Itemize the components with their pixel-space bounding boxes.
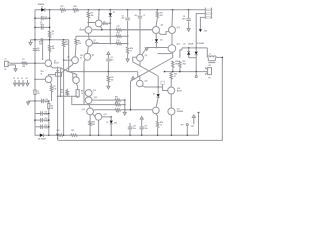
svg-text:Q9: Q9	[161, 24, 163, 26]
svg-text:1k: 1k	[130, 50, 132, 52]
svg-text:R19: R19	[182, 61, 185, 63]
svg-text:100n: 100n	[144, 128, 148, 130]
wire bias head	[147, 47, 168, 49]
svg-text:C12: C12	[44, 118, 47, 120]
resistor R29 box	[55, 73, 61, 77]
wire base Q9	[122, 29, 153, 31]
svg-text:Q13: Q13	[94, 97, 97, 99]
svg-text:1k: 1k	[52, 34, 54, 36]
svg-text:100n: 100n	[133, 128, 137, 130]
wire Q5 emitter	[84, 59, 85, 71]
svg-text:Q18: Q18	[177, 88, 180, 90]
wire Q15 right diode D7	[102, 116, 111, 118]
transistor Q7a	[85, 27, 92, 34]
wire right rail B top	[49, 10, 51, 60]
transistor Q14	[87, 108, 94, 115]
wire diode join	[189, 57, 197, 59]
transistor Q15	[95, 113, 102, 120]
wire VAS out2 R24	[115, 103, 121, 105]
wire long mid horizontal right	[165, 71, 208, 73]
transistor Q9	[153, 27, 160, 34]
svg-text:10k: 10k	[91, 15, 94, 17]
flag column 141.7	[140, 116, 143, 119]
svg-text:R26: R26	[160, 122, 163, 124]
diode D5	[188, 47, 190, 49]
wire bias rail	[182, 47, 207, 49]
svg-text:Q7: Q7	[93, 40, 95, 42]
svg-text:TP1: TP1	[181, 124, 184, 126]
svg-text:C13: C13	[44, 125, 47, 127]
svg-text:R21: R21	[71, 130, 74, 132]
transistor Q19	[138, 72, 140, 81]
resistor R28 top rail	[73, 9, 79, 11]
svg-text:D9: D9	[153, 93, 155, 95]
connector J2	[204, 8, 206, 19]
wire Q6 collector right	[102, 22, 110, 24]
wire Q2 emitter diag	[62, 63, 74, 72]
svg-text:BD140: BD140	[177, 90, 182, 93]
svg-text:10k: 10k	[78, 43, 81, 45]
node output	[195, 71, 197, 73]
svg-text:100n: 100n	[40, 24, 44, 26]
transistor Q10	[172, 9, 174, 11]
svg-text:Q19: Q19	[144, 81, 147, 83]
ground column 124.8	[124, 100, 126, 112]
svg-text:4148: 4148	[114, 121, 117, 124]
power flag V-	[199, 29, 202, 32]
fuse F1	[34, 86, 36, 90]
wire Q8 emitter	[139, 61, 141, 66]
junction dots bottom	[48, 135, 49, 136]
wire rail A lower	[34, 63, 36, 90]
capacitor C5 column	[127, 9, 129, 11]
transistor Q16 lower output	[153, 107, 160, 114]
wire Q17 down	[170, 115, 172, 135]
wire Q19 emitter	[142, 86, 162, 87]
wire corner 71.8	[58, 96, 78, 98]
ground arrow top-left	[30, 40, 32, 43]
wire ground row lower	[28, 100, 49, 102]
fuse F2	[48, 101, 50, 104]
node input	[34, 62, 36, 64]
svg-text:Q1: Q1	[54, 60, 56, 62]
wire Q16 emitter to R26	[156, 114, 158, 122]
wire column 60.6	[60, 68, 62, 96]
capacitor C12	[35, 119, 49, 121]
svg-text:47u: 47u	[45, 18, 48, 21]
wire Q8 base corner	[133, 57, 137, 62]
resistor R8 box	[76, 84, 78, 90]
capacitor C3	[35, 26, 50, 28]
capacitor C14 column	[129, 123, 131, 127]
wire under crossing	[158, 53, 172, 55]
wire J2 pin3	[200, 17, 205, 29]
resistor R18	[172, 61, 174, 68]
corner stick	[198, 112, 200, 114]
svg-text:C10: C10	[45, 99, 48, 101]
wire mid column 57.6	[57, 67, 59, 141]
svg-text:1k: 1k	[61, 12, 63, 14]
svg-text:0V: 0V	[26, 78, 28, 80]
resistor R19	[180, 50, 182, 58]
wire Q8 collector diag	[142, 48, 147, 55]
resistor R17 top	[157, 9, 159, 11]
speaker LS1	[208, 68, 212, 75]
svg-text:R23: R23	[115, 97, 118, 99]
resistor R16	[126, 47, 128, 54]
svg-text:OUT: OUT	[191, 126, 194, 128]
wire Q7 down to Q5	[87, 46, 88, 53]
resistor R4 top	[88, 9, 90, 11]
svg-text:D8 1N5401: D8 1N5401	[38, 138, 46, 141]
svg-text:RV2: RV2	[41, 71, 44, 73]
svg-text:0R5: 0R5	[92, 124, 95, 126]
ground arrow mid	[126, 59, 129, 62]
svg-text:R12: R12	[111, 77, 114, 79]
wire Q3 collector	[49, 75, 56, 76]
svg-text:Q2: Q2	[67, 57, 69, 59]
node diode out	[49, 9, 51, 11]
svg-text:R1: R1	[22, 59, 24, 61]
wire Q18 base flag	[161, 81, 164, 84]
svg-text:R15: R15	[117, 40, 120, 42]
svg-text:BC556: BC556	[54, 63, 59, 65]
wire Q6 emitter	[100, 27, 101, 30]
svg-text:Q12: Q12	[93, 90, 96, 92]
transistor Q8	[137, 54, 144, 61]
diode D6	[195, 47, 197, 49]
svg-text:C14: C14	[133, 125, 136, 128]
transistor Q1	[45, 60, 52, 67]
diode D8	[40, 133, 44, 137]
wire Q6 base	[88, 22, 95, 24]
svg-text:0V: 0V	[17, 78, 19, 80]
wire Q9 emitter diode D4	[155, 34, 157, 39]
svg-text:0V: 0V	[13, 78, 15, 80]
svg-text:2A: 2A	[51, 107, 54, 110]
wire Q14 down resistor R30	[89, 115, 91, 121]
resistor R11a	[66, 89, 68, 91]
svg-text:C15: C15	[144, 125, 147, 127]
svg-text:D3: D3	[113, 12, 115, 14]
svg-text:R10: R10	[80, 55, 83, 57]
svg-text:0V: 0V	[21, 78, 23, 80]
wire Q1 emitter to cross	[50, 65, 77, 77]
terminal out	[195, 72, 197, 76]
svg-text:100: 100	[53, 89, 56, 91]
wire cross diag B	[131, 58, 173, 110]
transistor Q11 driver	[168, 45, 176, 53]
node Q6 collector	[88, 22, 90, 24]
wire VAS out1	[92, 99, 115, 101]
svg-text:22k: 22k	[65, 44, 68, 46]
svg-text:R30: R30	[92, 122, 95, 124]
svg-text:J1: J1	[5, 59, 7, 61]
resistor R22 parallel	[207, 57, 209, 60]
svg-text:LS1: LS1	[208, 65, 211, 67]
resistor R25	[170, 72, 172, 73]
resistor R5 column 63.6	[63, 40, 65, 41]
svg-text:10k: 10k	[111, 80, 114, 82]
resistor R12 ground branch	[107, 72, 109, 76]
svg-text:D6 1N4148: D6 1N4148	[196, 42, 204, 45]
transistor Q17 lower output	[168, 108, 175, 115]
resistor R14 on wire2	[116, 35, 122, 37]
wire Q4 base from cross	[72, 73, 74, 80]
wire Q15 emitter	[97, 120, 99, 122]
resistor R1	[22, 62, 28, 64]
svg-text:BC556: BC556	[103, 24, 108, 26]
wire Q3 base	[35, 78, 45, 80]
svg-text:Q15: Q15	[104, 114, 107, 116]
wire Q2 base	[64, 59, 72, 61]
svg-text:10k: 10k	[52, 48, 55, 50]
inductor L1	[207, 56, 216, 57]
wire Q10 emitter	[171, 34, 173, 45]
wire R6 column 76 corner	[76, 36, 128, 39]
wire cross diag A	[133, 62, 159, 76]
capacitor C4	[33, 48, 37, 50]
diode D1	[41, 8, 45, 12]
capacitor C2	[35, 17, 50, 19]
wire Q7a base stub	[79, 29, 85, 31]
wire long mid horizontal left	[67, 71, 138, 73]
capacitor C10	[41, 99, 43, 103]
resistor R27 top rail	[60, 9, 66, 11]
resistor R2	[48, 31, 50, 38]
wire Q18 emitter	[170, 94, 172, 108]
wire rail A2	[34, 101, 36, 131]
capacitor C11	[35, 113, 49, 115]
resistor R7	[50, 82, 51, 86]
wire to right column	[216, 56, 222, 58]
svg-text:Q17: Q17	[177, 109, 180, 111]
transistor Q7	[86, 39, 93, 46]
diode D3	[110, 9, 112, 11]
svg-text:D1: D1	[41, 7, 43, 9]
svg-text:1N4148: 1N4148	[188, 43, 193, 46]
svg-text:R27: R27	[61, 6, 64, 8]
transistor Q13	[85, 97, 92, 104]
net flag out	[192, 115, 195, 118]
svg-text:D7: D7	[106, 122, 108, 124]
svg-text:R29: R29	[56, 71, 59, 73]
wire diff out 1	[92, 29, 153, 31]
svg-text:R25: R25	[174, 73, 177, 75]
transistor Q2	[72, 57, 79, 64]
svg-text:R13: R13	[117, 26, 120, 28]
svg-text:Q10: Q10	[177, 27, 180, 29]
wire vertical C	[42, 40, 44, 60]
svg-text:C7: C7	[143, 15, 145, 17]
wire ground row	[31, 39, 69, 41]
svg-text:0R22: 0R22	[182, 64, 186, 66]
resistor R13	[116, 29, 122, 31]
resistor R3	[48, 45, 50, 51]
resistor R6	[75, 39, 77, 45]
svg-text:1k: 1k	[81, 93, 83, 95]
wire Q11 emitter to R18	[172, 52, 174, 58]
svg-text:2A: 2A	[37, 92, 40, 95]
svg-text:100n: 100n	[44, 127, 48, 129]
connector J1 input	[5, 61, 9, 66]
wire column 68.7	[68, 40, 70, 72]
wire diff out 3	[93, 43, 122, 45]
ground arrow lower	[27, 101, 29, 102]
resistor R21	[71, 134, 78, 136]
svg-text:C11: C11	[44, 112, 47, 114]
wire Q9-Q10 link	[159, 32, 169, 35]
terminal TP	[186, 124, 188, 126]
transistor Q3	[45, 76, 52, 83]
transistor Q12	[85, 90, 92, 97]
svg-text:L1: L1	[209, 54, 211, 56]
svg-text:Q11: Q11	[177, 44, 180, 46]
svg-text:8R: 8R	[208, 77, 211, 79]
wire VAS out3	[93, 109, 115, 111]
svg-text:a: a	[152, 40, 153, 42]
transistor Q18 mid	[168, 87, 175, 94]
svg-text:Q5: Q5	[92, 54, 94, 56]
wire left bottom corner	[35, 127, 40, 135]
wire J2 pin2	[196, 14, 205, 48]
wire bias to L	[206, 48, 208, 58]
svg-text:22u: 22u	[122, 18, 125, 20]
svg-text:1k: 1k	[61, 92, 63, 94]
svg-text:Q8: Q8	[145, 55, 147, 57]
svg-text:2k2: 2k2	[22, 66, 25, 68]
svg-text:100n: 100n	[182, 19, 186, 21]
svg-text:-35V: -35V	[203, 31, 207, 33]
capacitor C13	[35, 126, 49, 128]
transistor Q6 cascode	[98, 9, 100, 11]
svg-text:1k: 1k	[74, 12, 76, 14]
capacitor C8 top right	[188, 9, 190, 11]
svg-text:47u: 47u	[111, 58, 114, 61]
svg-text:D4: D4	[160, 39, 162, 42]
flag cap column 108.4	[107, 52, 110, 55]
svg-text:2k: 2k	[41, 73, 43, 75]
svg-text:D5: D5	[183, 44, 185, 46]
svg-text:220: 220	[160, 15, 163, 17]
capacitor C7 column 140	[139, 9, 141, 11]
svg-text:b: b	[80, 28, 81, 30]
wire column 84 lower	[83, 72, 85, 105]
net flag small	[132, 76, 135, 79]
svg-text:2SA1943: 2SA1943	[177, 110, 183, 113]
svg-text:10u: 10u	[37, 50, 40, 52]
svg-text:47p: 47p	[135, 14, 138, 17]
wire top rail	[35, 9, 206, 11]
svg-text:10: 10	[160, 124, 162, 126]
svg-text:R28: R28	[74, 6, 77, 8]
wire left rail A top	[34, 10, 36, 63]
svg-text:IN: IN	[5, 69, 7, 71]
resistor R26 column	[156, 121, 158, 127]
transistor Q4	[73, 77, 80, 84]
node trimmer	[41, 39, 43, 41]
wire column 63.9 long	[63, 59, 65, 61]
svg-text:R31: R31	[116, 112, 119, 114]
resistor R20	[56, 134, 63, 136]
svg-text:R20: R20	[57, 130, 60, 132]
wire input	[10, 62, 46, 64]
diode D9	[157, 76, 159, 94]
transistor Q5 mid	[84, 53, 91, 60]
svg-text:Q14: Q14	[82, 108, 85, 111]
wire main rail	[43, 134, 198, 136]
wire input ground	[10, 64, 16, 66]
wire outer rail	[58, 57, 223, 140]
